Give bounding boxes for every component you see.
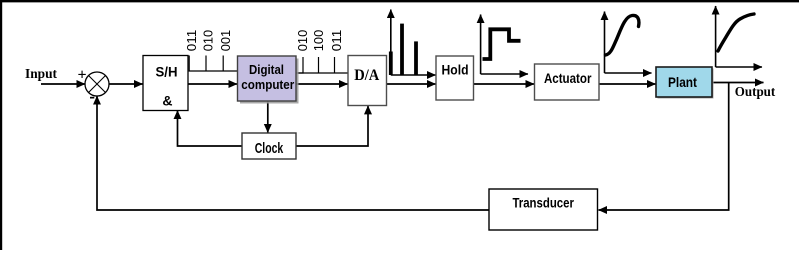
svg-text:001: 001 (218, 30, 233, 52)
svg-text:Output: Output (735, 85, 776, 100)
svg-text:100: 100 (311, 30, 326, 52)
svg-text:010: 010 (201, 30, 216, 52)
svg-text:Plant: Plant (668, 74, 697, 90)
svg-text:D/A: D/A (354, 67, 379, 84)
svg-text:Transducer: Transducer (512, 195, 574, 211)
svg-text:Input: Input (25, 67, 57, 82)
svg-text:Clock: Clock (255, 141, 284, 157)
svg-text:Actuator: Actuator (544, 70, 592, 86)
svg-text:010: 010 (295, 30, 310, 52)
svg-text:&: & (162, 93, 172, 109)
svg-text:011: 011 (329, 30, 344, 52)
svg-text:011: 011 (184, 30, 199, 52)
svg-text:Digital: Digital (249, 62, 284, 77)
svg-text:+: + (77, 67, 86, 84)
svg-text:S/H: S/H (156, 65, 178, 80)
svg-text:Hold: Hold (442, 62, 469, 78)
svg-text:computer: computer (241, 77, 294, 92)
